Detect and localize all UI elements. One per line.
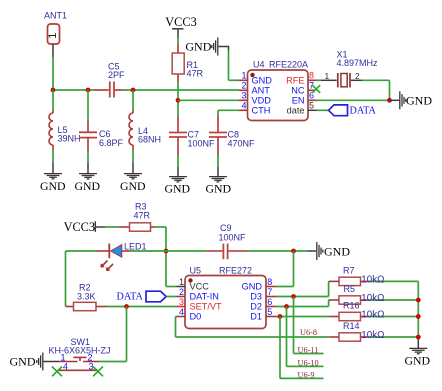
svg-text:1: 1 xyxy=(241,71,246,81)
svg-text:GND: GND xyxy=(405,353,431,367)
svg-text:VDD: VDD xyxy=(252,95,272,105)
svg-text:KH-6X6X5H-ZJ: KH-6X6X5H-ZJ xyxy=(49,346,111,356)
svg-text:10kΩ: 10kΩ xyxy=(361,293,384,304)
svg-text:U4: U4 xyxy=(253,60,265,70)
svg-text:2: 2 xyxy=(355,71,360,81)
svg-text:R7: R7 xyxy=(343,265,355,275)
svg-text:GND: GND xyxy=(40,179,66,193)
svg-text:8: 8 xyxy=(267,277,272,287)
svg-text:10kΩ: 10kΩ xyxy=(361,275,384,286)
svg-text:1: 1 xyxy=(179,277,184,287)
svg-text:GND: GND xyxy=(242,282,263,292)
svg-text:D0: D0 xyxy=(190,312,202,322)
svg-text:8: 8 xyxy=(309,71,314,81)
svg-text:R5: R5 xyxy=(344,284,356,294)
svg-text:47R: 47R xyxy=(187,69,204,79)
svg-text:U6-9: U6-9 xyxy=(298,370,315,379)
svg-text:6: 6 xyxy=(267,297,272,307)
svg-text:VCC: VCC xyxy=(190,282,210,292)
svg-text:5: 5 xyxy=(309,101,314,111)
svg-text:RFE: RFE xyxy=(286,75,304,85)
svg-text:100NF: 100NF xyxy=(219,233,247,243)
svg-text:GND: GND xyxy=(75,179,101,193)
svg-text:4.897MHz: 4.897MHz xyxy=(337,58,379,68)
svg-text:1: 1 xyxy=(325,71,330,81)
svg-text:100NF: 100NF xyxy=(188,139,216,149)
svg-text:2: 2 xyxy=(179,287,184,297)
svg-text:date: date xyxy=(287,105,305,115)
svg-text:GND: GND xyxy=(252,75,273,85)
svg-text:1: 1 xyxy=(47,33,59,39)
svg-text:GND: GND xyxy=(324,245,350,259)
svg-text:D1: D1 xyxy=(250,312,262,322)
svg-text:GND: GND xyxy=(10,355,36,369)
svg-text:RFE272: RFE272 xyxy=(219,266,252,276)
svg-text:10kΩ: 10kΩ xyxy=(361,330,384,341)
svg-text:3: 3 xyxy=(89,362,94,372)
svg-text:4: 4 xyxy=(179,307,184,317)
svg-text:DATA: DATA xyxy=(350,105,377,116)
svg-text:GND: GND xyxy=(185,40,211,54)
svg-text:68NH: 68NH xyxy=(138,135,161,145)
svg-text:GND: GND xyxy=(165,182,191,196)
svg-text:39NH: 39NH xyxy=(58,134,81,144)
svg-text:R14: R14 xyxy=(343,321,360,331)
svg-text:4: 4 xyxy=(63,362,68,372)
svg-text:NC: NC xyxy=(291,85,305,95)
svg-text:GND: GND xyxy=(406,93,432,107)
svg-text:ANT: ANT xyxy=(252,85,271,95)
svg-text:VCC3: VCC3 xyxy=(64,220,95,234)
svg-text:RFE220A: RFE220A xyxy=(269,60,308,70)
svg-text:U5: U5 xyxy=(190,266,202,276)
svg-text:GND: GND xyxy=(206,182,232,196)
svg-text:D3: D3 xyxy=(250,292,262,302)
svg-text:ANT1: ANT1 xyxy=(44,11,67,21)
svg-text:C9: C9 xyxy=(220,223,232,233)
svg-text:3.3K: 3.3K xyxy=(77,292,96,302)
svg-text:2PF: 2PF xyxy=(108,70,125,80)
svg-text:LED1: LED1 xyxy=(124,242,147,252)
svg-text:U6-11: U6-11 xyxy=(298,345,319,354)
svg-text:DAT-IN: DAT-IN xyxy=(190,292,219,302)
svg-text:CTH: CTH xyxy=(252,105,271,115)
svg-text:D2: D2 xyxy=(250,302,262,312)
svg-text:U6-8: U6-8 xyxy=(300,328,317,337)
svg-text:3: 3 xyxy=(179,297,184,307)
svg-text:470NF: 470NF xyxy=(228,139,256,149)
svg-text:EN: EN xyxy=(292,95,305,105)
svg-text:4: 4 xyxy=(241,101,246,111)
svg-text:SET/VT: SET/VT xyxy=(190,302,223,312)
svg-text:2: 2 xyxy=(241,81,246,91)
svg-text:U6-10: U6-10 xyxy=(298,358,319,367)
svg-text:5: 5 xyxy=(267,307,272,317)
svg-text:R16: R16 xyxy=(343,301,360,311)
svg-text:10kΩ: 10kΩ xyxy=(361,310,384,321)
svg-text:6.8PF: 6.8PF xyxy=(99,138,124,148)
svg-text:DATA: DATA xyxy=(117,291,144,302)
svg-text:7: 7 xyxy=(267,287,272,297)
svg-text:47R: 47R xyxy=(134,211,151,221)
svg-text:VCC3: VCC3 xyxy=(165,15,196,29)
svg-text:3: 3 xyxy=(241,91,246,101)
svg-text:GND: GND xyxy=(120,179,146,193)
